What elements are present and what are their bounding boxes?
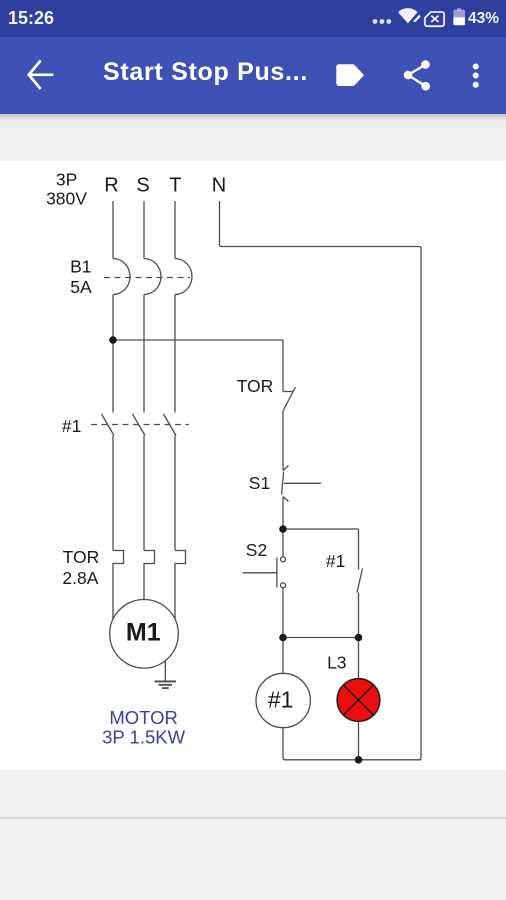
svg-text:380V: 380V <box>46 189 87 209</box>
coil #1 circle <box>256 673 310 727</box>
S1 bottom terminal tick <box>283 497 289 502</box>
svg-text:S2: S2 <box>246 540 267 560</box>
wire neutral N down and right to right rail <box>220 201 422 758</box>
back arrow icon <box>29 62 52 89</box>
wire phase S contactor to TOR <box>143 436 145 551</box>
wire left control branch down to TOR contact <box>282 340 284 392</box>
battery icon <box>453 8 465 25</box>
contactor #1 pole S blade <box>133 414 146 436</box>
S1 top terminal tick <box>283 466 289 471</box>
wire phase S breaker to contactor <box>143 295 145 413</box>
wire control feed from R junction to left control branch <box>113 339 283 341</box>
wifi icon <box>398 8 418 23</box>
wire aux branch down to #1 contact <box>358 529 360 570</box>
junction dot bottom right <box>355 634 363 642</box>
wire phase T contactor to TOR <box>174 436 176 551</box>
bottom separator line <box>0 817 506 819</box>
status bar clock <box>8 9 54 27</box>
svg-text:R: R <box>104 175 118 197</box>
contactor #1 mechanical link dashed <box>91 424 189 426</box>
junction dot lamp bottom rail <box>355 756 363 764</box>
svg-text:S: S <box>136 175 149 197</box>
status bar <box>0 0 506 37</box>
wire lamp bottom <box>358 721 360 759</box>
breaker B1 pole S arc <box>144 259 161 295</box>
wire aux contact to bottom junction <box>358 593 360 638</box>
status bar icons svg <box>0 0 506 37</box>
svg-text:#1: #1 <box>268 687 294 713</box>
TOR heater element R <box>113 551 124 620</box>
TOR NC contact tick <box>283 391 293 393</box>
lamp L3 circle <box>337 679 380 722</box>
breaker B1 pole T arc <box>175 259 192 295</box>
junction dot bottom left <box>279 634 287 642</box>
wire phase R breaker to contactor <box>112 295 114 413</box>
wire phase R vertical top <box>112 201 114 259</box>
S2 bottom contact circle <box>281 583 286 588</box>
svg-text:S1: S1 <box>249 473 270 493</box>
lamp L3 cross <box>343 685 373 715</box>
svg-text:B1: B1 <box>70 257 91 277</box>
battery percent <box>468 11 499 27</box>
wire phase R contactor to TOR <box>112 436 114 551</box>
aux contact #1 blade <box>357 569 363 593</box>
breaker B1 pole R arc <box>113 259 130 295</box>
svg-text:2.8A: 2.8A <box>62 568 98 588</box>
S2 blade <box>276 558 278 588</box>
label/tag icon <box>336 64 364 86</box>
share icon <box>404 60 430 90</box>
S2 actuator <box>243 572 277 574</box>
svg-text:N: N <box>212 175 226 197</box>
TOR heater element S <box>144 551 155 600</box>
wire S2 to junction bottom <box>282 588 284 638</box>
wire phase T vertical top <box>174 201 176 259</box>
breaker B1 mechanical link dashed <box>104 277 190 279</box>
ground lead from motor <box>164 661 166 681</box>
app bar <box>0 37 506 114</box>
svg-text:#1: #1 <box>62 416 81 436</box>
ground symbol bars <box>155 681 177 688</box>
junction dot R feed <box>109 336 117 344</box>
overflow menu dots <box>473 64 479 88</box>
overflow dots status <box>373 19 392 24</box>
svg-text:5A: 5A <box>70 277 92 297</box>
svg-text:#1: #1 <box>326 551 345 571</box>
wire right rail bottom corner <box>419 758 421 760</box>
wire junction to aux branch <box>283 528 359 530</box>
white diagram background <box>0 161 506 770</box>
app bar icons svg <box>0 37 506 114</box>
wire TOR contact to S1 <box>282 410 284 470</box>
svg-text:T: T <box>169 175 181 197</box>
S1 actuator bar <box>284 482 321 484</box>
junction dot S1 bottom <box>279 525 287 533</box>
app bar title <box>103 60 308 85</box>
wire S2 top <box>282 529 284 557</box>
S1 blade <box>282 472 284 495</box>
motor M1 circle <box>110 600 179 669</box>
svg-text:L3: L3 <box>327 653 346 673</box>
wire phase S vertical top <box>143 201 145 259</box>
wire phase T breaker to contactor <box>174 295 176 413</box>
wire bottom junction horizontal <box>283 637 359 639</box>
TOR heater element T <box>175 551 186 620</box>
contactor #1 pole T blade <box>164 414 177 436</box>
svg-text:3P: 3P <box>56 170 77 190</box>
contactor #1 pole R blade <box>102 414 115 436</box>
TOR NC contact blade <box>284 387 296 410</box>
S2 top contact circle <box>281 557 286 562</box>
no-sim crossed box icon <box>425 12 444 26</box>
svg-text:M1: M1 <box>126 619 161 647</box>
svg-text:TOR: TOR <box>63 547 100 567</box>
wire lamp top <box>358 638 360 679</box>
svg-text:3P 1.5KW: 3P 1.5KW <box>102 727 185 748</box>
wire to coil top <box>282 638 284 674</box>
wire S1 to junction <box>282 497 284 529</box>
wire coil bottom to bottom rail <box>283 728 421 760</box>
svg-text:MOTOR: MOTOR <box>109 707 178 728</box>
svg-text:TOR: TOR <box>237 376 274 396</box>
